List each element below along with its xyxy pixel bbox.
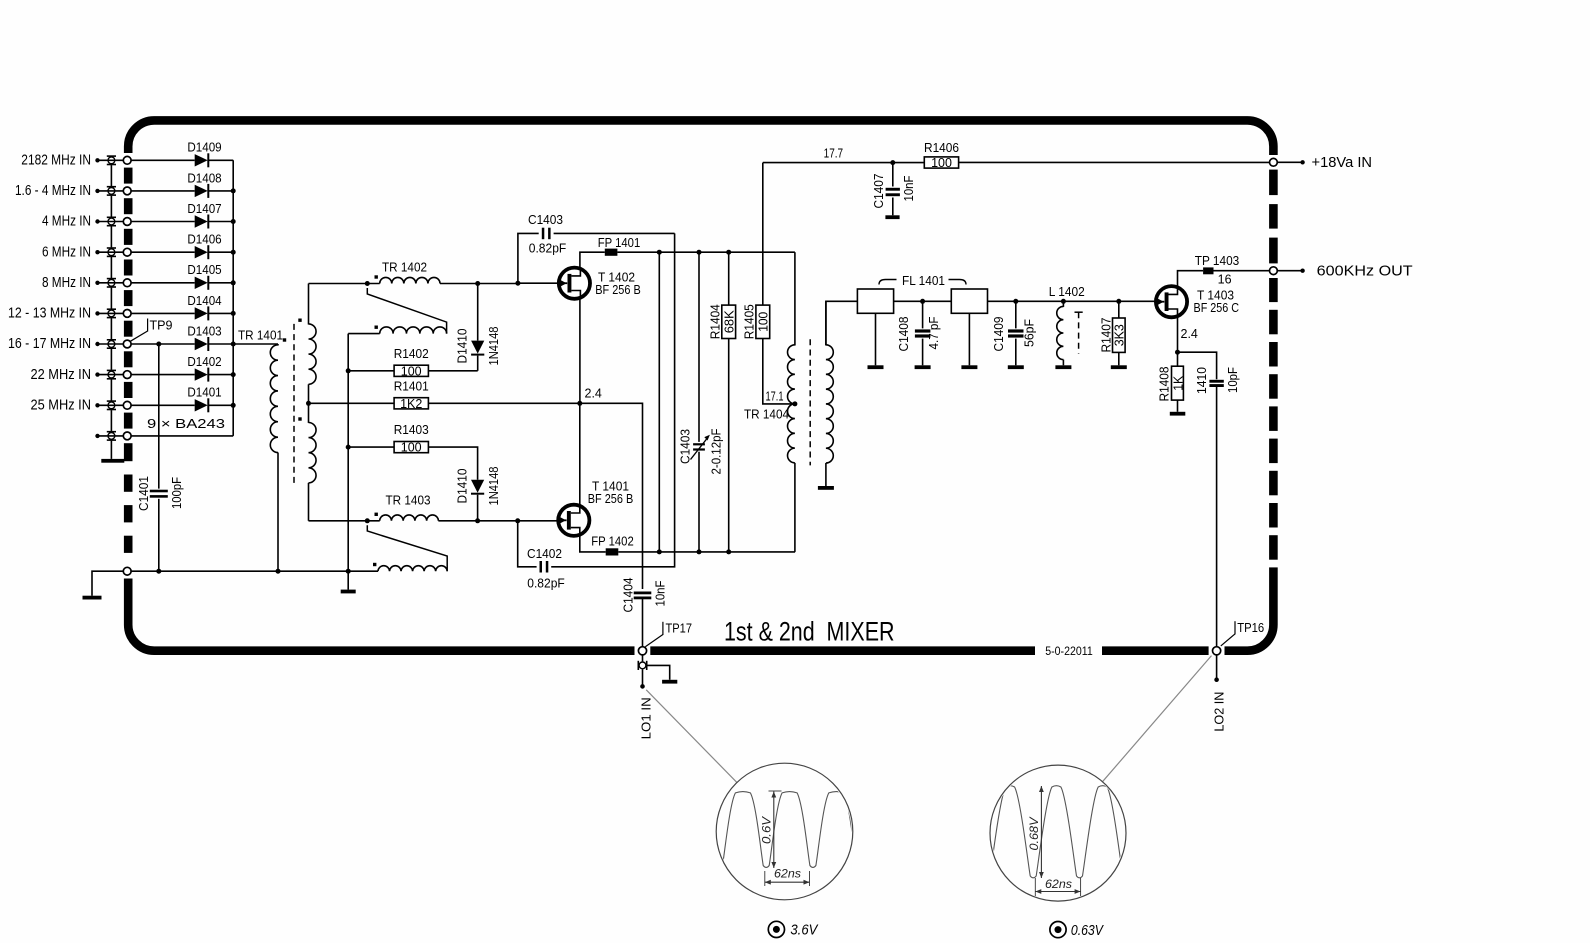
wire (D1410 lower bottom): [477, 495, 479, 521]
wire (C1404 to TP17): [642, 598, 644, 647]
wire (R1408 bottom): [1177, 400, 1179, 412]
node (C1402/gate row): [515, 518, 520, 523]
input label 6 MHz IN: [42, 244, 91, 260]
node (R1404/FP1402): [726, 549, 731, 554]
svg-text:D1401: D1401: [187, 386, 221, 400]
svg-text:TP16: TP16: [1237, 621, 1264, 635]
label 9 x BA243: [147, 417, 225, 431]
wire (2.4 junction to C1404): [580, 403, 643, 589]
node (bus row 9): [231, 403, 236, 408]
svg-text:4.7 pF: 4.7 pF: [927, 316, 941, 349]
svg-text:TR 1403: TR 1403: [386, 494, 431, 508]
wire (TR1402 upper right): [440, 283, 518, 285]
svg-text:TP17: TP17: [666, 622, 693, 636]
wire (600KHz stub): [1277, 270, 1302, 272]
svg-text:C1408: C1408: [897, 316, 911, 351]
svg-text:C1402: C1402: [527, 547, 562, 561]
wire (17.7 riser / R1405 top): [762, 163, 764, 306]
dimension 0.68V (right): [1027, 786, 1044, 878]
svg-text:TR 1401: TR 1401: [238, 329, 283, 343]
label 10nF (C1407): [902, 175, 916, 201]
wire (diode D1402 to bus): [209, 374, 234, 376]
svg-text:12 - 13 MHz IN: 12 - 13 MHz IN: [8, 306, 91, 322]
svg-text:TP 1403: TP 1403: [1195, 254, 1240, 268]
connector port (row 9): [123, 401, 131, 409]
node (TR1401 primary/common): [276, 569, 281, 574]
label 100pF: [170, 477, 184, 509]
svg-text:D1409: D1409: [187, 141, 221, 155]
svg-text:1.6 - 4 MHz IN: 1.6 - 4 MHz IN: [15, 183, 91, 199]
TR1401 secondary winding upper: [309, 284, 317, 385]
node (TR1403 top-left): [365, 518, 370, 523]
wire (R1403 left): [348, 446, 394, 448]
transformer TR1401 label: [238, 329, 283, 343]
transistor T1402: [559, 267, 590, 299]
svg-text:D1407: D1407: [187, 202, 221, 216]
wire (C1407 bottom): [892, 198, 894, 216]
wire (to C1410): [1178, 352, 1217, 379]
input label 1.6 - 4 MHz IN: [15, 183, 91, 199]
wire (input row 4): [98, 251, 124, 253]
L1402 tuning core: [1075, 312, 1083, 353]
label C1404: [622, 577, 636, 612]
svg-text:LO2 IN: LO2 IN: [1211, 692, 1226, 732]
wire (C1409 top): [1015, 301, 1017, 328]
wire (T1401 gate row): [438, 520, 558, 522]
svg-text:10nF: 10nF: [902, 175, 916, 201]
node (bus row 2): [231, 188, 236, 193]
node (TR1401 center tap): [306, 401, 311, 406]
wire (diode D1401 to bus): [209, 404, 234, 406]
svg-text:3.6V: 3.6V: [790, 923, 818, 939]
wire (C1402 left riser): [518, 521, 537, 567]
svg-text:TR 1404: TR 1404: [744, 408, 789, 422]
wire (row 2 to diode): [131, 190, 195, 192]
label LO1 IN: [638, 697, 653, 739]
svg-text:62ns: 62ns: [1045, 877, 1072, 891]
resistor R1403: [394, 423, 429, 455]
feed-through capacitor (row 7): [107, 339, 116, 349]
svg-text:FL 1401: FL 1401: [902, 274, 945, 288]
connector port (row 8): [123, 371, 131, 379]
wire (C1401 top): [158, 344, 160, 489]
label T1403: [1194, 289, 1240, 316]
svg-text:2.4: 2.4: [1181, 327, 1198, 341]
resistor R1401: [394, 379, 429, 411]
svg-text:16 - 17 MHz IN: 16 - 17 MHz IN: [8, 336, 91, 352]
wire (input row 1): [98, 159, 124, 161]
ferrite bead FP1402: [591, 535, 634, 556]
board number 5-0-22011: [1045, 646, 1093, 658]
svg-text:1K2: 1K2: [400, 397, 422, 411]
node dot (input row 10): [95, 434, 99, 438]
svg-text:16: 16: [1218, 273, 1232, 287]
probe symbol 3.6V (left): [768, 921, 818, 938]
wire (C1409 bottom): [1015, 339, 1017, 366]
wire (row 4 to diode): [131, 251, 195, 253]
TR1404 secondary winding: [826, 301, 833, 486]
label L1402: [1049, 285, 1085, 299]
diode D1401: [187, 386, 221, 413]
wire (C1403 var column): [698, 252, 700, 552]
wire (FL1401 to T1403 gate): [988, 300, 1156, 302]
node (T1403 source junction): [1175, 350, 1180, 355]
title 1st & 2nd MIXER: [724, 617, 895, 647]
svg-text:+18Va IN: +18Va IN: [1312, 155, 1373, 171]
diode D1408: [187, 171, 221, 198]
input label 2182 MHz IN: [21, 153, 91, 169]
TR1402 upper winding: [380, 277, 440, 283]
svg-text:25 MHz IN: 25 MHz IN: [31, 398, 92, 414]
diode D1405: [187, 263, 221, 290]
wire (input row 8): [98, 374, 124, 376]
node (C1403/T1402 gate): [515, 281, 520, 286]
feed-through capacitor (row 9): [107, 400, 116, 410]
svg-text:100: 100: [757, 312, 771, 332]
wire (D1410 upper top): [477, 284, 479, 341]
svg-text:1N4148: 1N4148: [487, 466, 501, 505]
node dot (input row 2): [95, 189, 99, 193]
magnifier circle (left): [716, 763, 853, 900]
feed-through capacitor (row 5): [107, 278, 116, 288]
node (bus row 3): [231, 219, 236, 224]
node dot (input row 5): [95, 281, 99, 285]
wire (row 5 to diode): [131, 282, 195, 284]
connector port (row 3): [123, 218, 131, 226]
label C1408: [897, 316, 911, 351]
node (C1408): [920, 299, 925, 304]
svg-text:0.68V: 0.68V: [1027, 816, 1041, 850]
node (C1403var/FP1401): [697, 250, 702, 255]
feed-through capacitor (row 3): [107, 217, 116, 227]
label 16: [1218, 273, 1232, 287]
svg-text:C1401: C1401: [137, 476, 151, 511]
svg-text:100pF: 100pF: [170, 477, 184, 509]
ground (L1402): [1055, 365, 1071, 369]
label 600KHz OUT: [1317, 263, 1413, 279]
svg-text:D1405: D1405: [187, 263, 221, 277]
wire (diode D1408 to bus): [209, 190, 234, 192]
svg-text:D1406: D1406: [187, 233, 221, 247]
variable capacitor C1403 (2-0.12pF): [691, 435, 710, 460]
magnifier circle (right): [990, 765, 1126, 901]
svg-text:5-0-22011: 5-0-22011: [1045, 646, 1093, 658]
capacitor C1404: [634, 592, 652, 600]
ground (feed-through column): [101, 459, 124, 463]
feed-through capacitor (TP17): [638, 661, 648, 670]
wire (common line left stub): [92, 571, 123, 596]
svg-text:100: 100: [931, 156, 952, 170]
svg-text:LO1 IN: LO1 IN: [638, 697, 653, 739]
dimension 62ns (left): [765, 867, 810, 887]
svg-text:100: 100: [401, 364, 422, 378]
TR1402 lower winding: [380, 327, 447, 334]
connector port (row 10): [123, 432, 131, 440]
wire (TP17 to LO1 dot): [642, 670, 644, 687]
capacitor C1407: [886, 188, 900, 196]
wire (C1408 top): [922, 301, 924, 328]
node dot (input row 3): [95, 219, 99, 223]
capacitor C1402: [540, 561, 549, 573]
label 0.82pF (C1403): [529, 241, 567, 255]
node (bus row 8): [231, 372, 236, 377]
filter FL1401 box 2: [951, 289, 987, 313]
connector port (row 4): [123, 248, 131, 256]
svg-text:2-0.12pF: 2-0.12pF: [710, 428, 724, 474]
label TP17: [645, 622, 692, 647]
ground (left stub): [83, 596, 102, 600]
label TP16: [1221, 621, 1264, 646]
svg-text:D1410: D1410: [456, 468, 470, 503]
node (R1403/riser): [346, 445, 351, 450]
wire (input row 5): [98, 282, 124, 284]
ground (C1409): [1008, 365, 1024, 369]
wire (R1408 top): [1177, 352, 1179, 366]
wire (TP16 to LO2 dot): [1216, 655, 1218, 680]
filter FL1401 box 1: [857, 289, 893, 313]
wire (row 8 to diode): [131, 374, 195, 376]
feed-through capacitor (row 8): [107, 370, 116, 380]
TR1404 primary winding: [788, 345, 795, 463]
ground (FL1401 box1): [868, 365, 884, 369]
connector port (row 7): [123, 340, 131, 348]
label 1N4148 (lower): [487, 466, 501, 505]
input label 22 MHz IN: [31, 367, 92, 383]
svg-text:3K3: 3K3: [1113, 324, 1127, 346]
wire (C1410 to TP16): [1216, 387, 1218, 647]
diode D1404: [187, 294, 221, 321]
ferrite bead FP1401: [598, 236, 641, 256]
diode D1409: [187, 141, 221, 168]
wire (T1402 drain to FP1401 row): [580, 252, 605, 267]
input label 16 - 17 MHz IN: [8, 336, 91, 352]
node dot (input row 4): [95, 250, 99, 254]
connector port (row 2): [123, 187, 131, 195]
svg-text:R1403: R1403: [394, 423, 429, 437]
svg-text:1K: 1K: [1171, 375, 1185, 391]
wire (C1402 right): [551, 233, 674, 566]
label 10nF (C1404): [654, 580, 668, 606]
diode bus wire: [232, 160, 234, 436]
svg-text:0.82pF: 0.82pF: [529, 241, 567, 255]
label 2.4 (T1403): [1181, 327, 1198, 341]
bias riser wire (x348): [347, 334, 349, 590]
ground (TR1404 secondary): [818, 486, 834, 490]
wire (T1401 drain riser): [579, 403, 581, 505]
wire (input row 2): [98, 190, 124, 192]
svg-text:17.7: 17.7: [824, 147, 844, 161]
TR1404 core (dashed): [809, 339, 811, 465]
node (C1403var/FP1402): [697, 549, 702, 554]
label C1403 (var): [679, 429, 693, 464]
wire (C1401 bottom): [158, 499, 160, 571]
wire (input row 7): [98, 343, 124, 345]
wire (D1410 upper bottom): [477, 356, 479, 371]
node (R1407): [1116, 299, 1121, 304]
ground (FL1401 box2): [961, 365, 977, 369]
node dot (input row 7): [95, 342, 99, 346]
svg-text:D1410: D1410: [456, 328, 470, 363]
svg-text:D1402: D1402: [187, 355, 221, 369]
waveform trace (left): [623, 792, 950, 868]
node dot (LO1 IN): [640, 684, 645, 689]
wire (diode D1406 to bus): [209, 251, 234, 253]
common bottom wire: [131, 570, 378, 572]
wire (diode D1409 to bus): [209, 159, 234, 161]
wire (row 10 to bus): [131, 435, 233, 437]
wire (R1404 bottom): [728, 339, 730, 552]
node dot (+18Va): [1300, 160, 1304, 164]
waveform trace (right): [891, 786, 1215, 878]
border dash gaps (white): [123, 153, 1280, 656]
node (C1409): [1013, 299, 1018, 304]
feed-through capacitor column line: [110, 165, 112, 459]
svg-text:TR 1402: TR 1402: [382, 261, 427, 275]
svg-text:C1403: C1403: [679, 429, 693, 464]
svg-text:BF 256 B: BF 256 B: [588, 492, 634, 506]
diode D1406: [187, 233, 221, 260]
wire (17.7 row): [763, 162, 925, 164]
TR1401 primary winding: [270, 344, 278, 571]
label C1401: [137, 476, 151, 511]
node (C1401/common): [156, 569, 161, 574]
node (bus row 7): [231, 342, 236, 347]
resistor R1404: [709, 304, 737, 339]
ground (bias riser): [341, 590, 356, 594]
svg-text:R1405: R1405: [743, 304, 757, 339]
node (R1402/riser): [346, 368, 351, 373]
node (row7 / C1401): [156, 342, 161, 347]
wire (FL boxes link): [894, 300, 952, 302]
wire (TR1401 sec bottom to TR1403): [309, 520, 380, 522]
feed-through capacitor (row 1): [107, 155, 116, 165]
svg-text:D1404: D1404: [187, 294, 221, 308]
dimension 62ns (right): [1035, 877, 1080, 896]
wire (FL1401 box2 stub): [968, 313, 970, 365]
connector port (row 6): [123, 310, 131, 318]
resistor R1408: [1158, 366, 1186, 401]
svg-text:56pF: 56pF: [1023, 319, 1037, 347]
svg-text:1st & 2nd MIXER: 1st & 2nd MIXER: [724, 617, 895, 647]
ground (R1407): [1111, 365, 1127, 369]
wire (C1408 bottom): [922, 339, 924, 366]
magnifier leader (left): [646, 690, 737, 783]
wire (T1401 source to FP1402 row): [580, 536, 606, 552]
svg-text:C1409: C1409: [992, 316, 1006, 351]
wire (R1407 bottom): [1118, 352, 1120, 365]
connector port (+18Va): [1270, 158, 1278, 166]
node dot (input row 8): [95, 372, 99, 376]
node (L1402): [1061, 299, 1066, 304]
TR1401 phase dot (sec lower): [298, 417, 301, 420]
filter FL1401 label: [879, 274, 966, 288]
wire (R1405 bottom to tap): [763, 339, 795, 404]
svg-text:1N4148: 1N4148: [487, 326, 501, 365]
wire (TR1404 sec to FL1401): [826, 301, 858, 345]
feed-through capacitor (row 2): [107, 186, 116, 196]
node (D1410/gate row): [475, 518, 480, 523]
svg-text:R1407: R1407: [1100, 317, 1114, 352]
wire (+18Va stub): [1277, 161, 1302, 163]
label 56pF: [1023, 319, 1037, 347]
svg-text:600KHz OUT: 600KHz OUT: [1317, 263, 1413, 279]
wire (T1402 source riser): [579, 299, 581, 403]
wire (x659 column): [658, 252, 660, 552]
svg-text:D1408: D1408: [187, 171, 221, 185]
label LO2 IN: [1211, 692, 1226, 732]
svg-text:C1403: C1403: [528, 213, 563, 227]
input label 25 MHz IN: [31, 398, 92, 414]
wire (R1403 right): [428, 447, 477, 480]
TR1401 secondary winding lower: [309, 384, 317, 521]
feed-through capacitor (row 10): [107, 431, 116, 441]
label T1402: [595, 271, 641, 298]
node dot (input row 6): [95, 311, 99, 315]
test point TP16 port: [1213, 647, 1221, 655]
input label 4 MHz IN: [42, 214, 91, 230]
TR1403 phase dot (lower): [373, 563, 376, 566]
dimension 0.6V (left): [759, 791, 781, 868]
wire (input row 10): [98, 435, 124, 437]
wire (FP1401 row): [617, 251, 795, 253]
node dot (input row 1): [95, 158, 99, 162]
label 17.1: [766, 389, 784, 403]
svg-text:62ns: 62ns: [774, 867, 801, 881]
node (TR1402 top-left): [365, 281, 370, 286]
svg-text:17.1: 17.1: [766, 389, 784, 403]
ground (R1408): [1170, 412, 1186, 416]
capacitor C1410: [1209, 380, 1223, 387]
svg-text:6 MHz IN: 6 MHz IN: [42, 244, 91, 260]
feed-through capacitor (row 4): [107, 247, 116, 257]
diode D1410 (lower): [471, 480, 484, 495]
wire (row7 to TR1401 primary): [233, 343, 278, 345]
TR1403 link diagonal: [367, 525, 447, 571]
node dot (LO2 IN): [1214, 677, 1219, 682]
label D1410 (lower): [456, 468, 470, 503]
node (TR1404 tap 17.1): [792, 401, 797, 406]
TR1403 lower winding: [378, 566, 447, 572]
label 4.7 pF: [927, 316, 941, 349]
svg-text:C1407: C1407: [872, 173, 886, 208]
svg-text:R1401: R1401: [394, 379, 429, 393]
label C1407: [872, 173, 886, 208]
transformer TR1403 label: [386, 494, 431, 508]
node (TR1402/D1410): [475, 281, 480, 286]
diode D1403: [187, 324, 221, 351]
wire (FP1401 row to TR1404 primary): [794, 252, 796, 345]
transistor T1403: [1156, 286, 1187, 318]
wire (input row 6): [98, 312, 124, 314]
wire (row 3 to diode): [131, 221, 195, 223]
TR1402 phase dot (lower): [375, 326, 378, 329]
svg-text:FP 1401: FP 1401: [598, 236, 641, 250]
wire (R1404 top): [728, 252, 730, 305]
svg-text:68K: 68K: [722, 310, 736, 334]
transistor T1401: [558, 504, 589, 536]
TR1401 phase dot (sec upper): [298, 319, 301, 322]
board border frame (rounded, partly dashed): [128, 120, 1273, 650]
wire (diode D1407 to bus): [209, 221, 234, 223]
svg-text:2182 MHz IN: 2182 MHz IN: [21, 153, 91, 169]
label 1410: [1195, 367, 1209, 394]
input label 12 - 13 MHz IN: [8, 306, 91, 322]
TR1402 link diagonal: [367, 288, 446, 334]
label 2-0.12pF: [710, 428, 724, 474]
svg-text:R1406: R1406: [924, 141, 959, 155]
capacitor C1408: [915, 329, 931, 337]
svg-text:FP 1402: FP 1402: [591, 535, 634, 549]
